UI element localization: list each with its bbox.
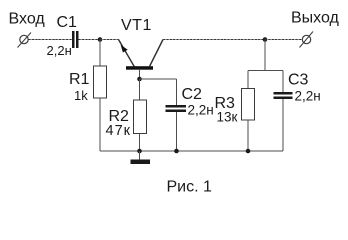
R1 value 1k (74, 88, 88, 103)
svg-text:Рис. 1: Рис. 1 (167, 179, 213, 196)
C1 label (57, 14, 78, 31)
svg-text:C3: C3 (288, 72, 309, 89)
node A junction dot (98, 37, 103, 42)
R2 label (109, 108, 130, 125)
resistor R3 (242, 89, 255, 121)
wire R2 bottom to ground rail (139, 134, 141, 152)
R3 value 13к (217, 110, 238, 125)
svg-text:2,2н: 2,2н (188, 103, 214, 118)
svg-text:R1: R1 (69, 71, 90, 88)
node Выход label (291, 10, 340, 27)
C1 value 2,2н (47, 43, 72, 58)
wire node A down to R1 (99, 40, 101, 67)
wire C3 bottom to ground rail (282, 99, 284, 151)
wire node C to output terminal (265, 39, 302, 41)
junction dot R3 at rail (246, 149, 251, 154)
svg-text:VT1: VT1 (121, 17, 152, 34)
capacitor C1 (72, 31, 79, 48)
caption Рис. 1 (167, 179, 213, 196)
junction dot C2 at rail (174, 149, 179, 154)
R2 value 47к (106, 123, 131, 139)
svg-text:13к: 13к (217, 110, 238, 125)
svg-text:C1: C1 (57, 14, 78, 31)
C2 label (182, 86, 203, 103)
VT1 label (121, 17, 152, 34)
node C junction dot (263, 37, 268, 42)
wire input to C1 (29, 39, 73, 41)
svg-text:Вход: Вход (9, 11, 46, 28)
wire R3 bottom to ground rail (247, 120, 249, 151)
wire C1 to node A (79, 39, 101, 41)
C3 label (288, 72, 309, 89)
wire bridge over R3 and C3 (248, 71, 283, 93)
C2 value 2,2н (188, 103, 214, 118)
svg-text:2,2н: 2,2н (47, 43, 72, 58)
input terminal (18, 33, 32, 48)
node B junction dot below VT1 (137, 77, 142, 82)
node Вход label (9, 11, 46, 28)
resistor R1 (94, 66, 107, 98)
junction dot R2 at rail (137, 149, 142, 154)
wire node A to emitter bend (100, 39, 119, 41)
output terminal (300, 32, 314, 48)
wire node B down to R2 (139, 79, 141, 100)
svg-text:1k: 1k (74, 88, 88, 103)
svg-text:47к: 47к (106, 123, 131, 139)
R1 label (69, 71, 90, 88)
C3 value 2,2н (295, 88, 321, 103)
svg-text:Выход: Выход (291, 10, 340, 27)
R3 label (215, 95, 236, 112)
ground (131, 151, 151, 164)
wire collector to node C (163, 39, 265, 41)
ground rail wire (100, 150, 283, 152)
resistor R2 (134, 100, 147, 134)
wire C2 bottom to ground rail (176, 112, 178, 151)
transistor VT1 (119, 40, 164, 80)
wire node C down to R3 C3 bridge (264, 40, 266, 71)
wire node B to C2 branch (140, 79, 177, 105)
capacitor C2 (166, 105, 187, 112)
svg-text:C2: C2 (182, 86, 203, 103)
svg-text:2,2н: 2,2н (295, 88, 321, 103)
wire R1 bottom to ground rail (99, 98, 101, 151)
capacitor C3 (274, 92, 293, 99)
